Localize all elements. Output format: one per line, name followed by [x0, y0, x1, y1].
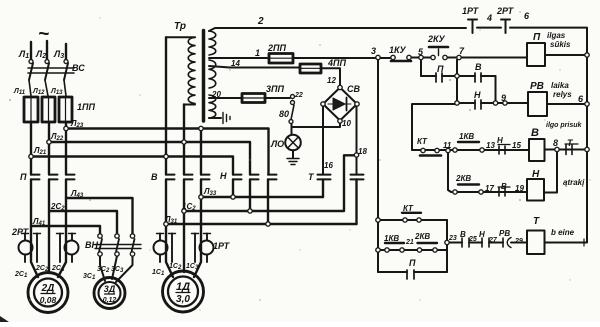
svg-text:П: П	[409, 258, 416, 268]
svg-text:Т: Т	[533, 216, 540, 227]
svg-text:8: 8	[553, 138, 558, 148]
svg-text:29: 29	[514, 238, 523, 245]
svg-text:Л13: Л13	[50, 88, 63, 96]
svg-text:4: 4	[486, 13, 492, 23]
svg-text:П: П	[437, 64, 444, 74]
svg-text:3: 3	[371, 46, 376, 56]
svg-text:0,08: 0,08	[40, 295, 57, 305]
svg-text:КТ: КТ	[403, 204, 414, 213]
svg-text:9: 9	[501, 93, 506, 103]
svg-text:Н: Н	[479, 230, 485, 239]
svg-text:2Д: 2Д	[41, 283, 55, 294]
svg-text:13: 13	[486, 141, 495, 150]
svg-text:0,12: 0,12	[103, 297, 117, 304]
svg-text:В: В	[501, 182, 507, 191]
svg-text:РВ: РВ	[499, 229, 510, 238]
svg-text:Н: Н	[220, 171, 227, 181]
svg-text:14: 14	[231, 59, 240, 68]
svg-text:ilgo prisuk: ilgo prisuk	[546, 122, 583, 129]
svg-text:23: 23	[448, 235, 457, 242]
svg-text:Л11: Л11	[13, 88, 26, 96]
svg-text:laika: laika	[551, 81, 569, 90]
svg-text:27: 27	[488, 237, 498, 244]
svg-text:Н: Н	[497, 136, 503, 145]
svg-text:12: 12	[327, 76, 336, 85]
svg-text:1РТ: 1РТ	[462, 6, 480, 16]
svg-text:b eine: b eine	[551, 228, 575, 237]
svg-text:ВС: ВС	[72, 63, 85, 73]
svg-text:2ПП: 2ПП	[267, 43, 286, 53]
svg-text:2: 2	[257, 16, 264, 27]
svg-text:10: 10	[342, 119, 351, 128]
svg-text:Л12: Л12	[32, 88, 45, 96]
svg-text:1: 1	[255, 48, 260, 58]
svg-text:3С3: 3С3	[111, 266, 124, 274]
svg-text:4ПП: 4ПП	[327, 58, 346, 68]
svg-text:1Д: 1Д	[176, 281, 190, 293]
svg-text:2КУ: 2КУ	[427, 34, 446, 44]
svg-text:Н: Н	[474, 90, 481, 100]
svg-text:1ПП: 1ПП	[77, 102, 95, 112]
svg-text:1РТ: 1РТ	[213, 241, 231, 251]
svg-text:2КВ: 2КВ	[455, 174, 471, 183]
svg-text:1КУ: 1КУ	[389, 45, 407, 55]
svg-text:21: 21	[405, 239, 414, 246]
svg-text:17: 17	[485, 184, 494, 193]
svg-text:РВ: РВ	[530, 81, 544, 92]
svg-text:15: 15	[512, 141, 521, 150]
svg-text:ВН: ВН	[85, 240, 98, 250]
svg-text:Тр: Тр	[174, 21, 186, 32]
svg-text:relys: relys	[553, 90, 572, 99]
svg-text:2РТ: 2РТ	[11, 227, 30, 237]
svg-text:3ПП: 3ПП	[266, 84, 284, 94]
svg-text:sūkis: sūkis	[550, 40, 571, 49]
svg-text:22: 22	[294, 92, 303, 99]
svg-text:П: П	[20, 172, 27, 182]
svg-text:1С1: 1С1	[152, 269, 165, 277]
svg-text:1КВ: 1КВ	[384, 234, 399, 243]
svg-text:25: 25	[468, 236, 477, 243]
svg-text:В: В	[475, 62, 482, 72]
svg-text:80: 80	[279, 109, 289, 119]
svg-text:В: В	[531, 127, 539, 139]
svg-text:2С3: 2С3	[51, 265, 65, 273]
svg-text:16: 16	[324, 161, 333, 170]
svg-text:2С2: 2С2	[35, 265, 49, 273]
svg-text:В: В	[460, 230, 466, 239]
svg-text:20: 20	[211, 90, 221, 99]
svg-text:СВ: СВ	[347, 84, 360, 94]
svg-text:2С1: 2С1	[14, 271, 28, 279]
svg-text:19: 19	[515, 184, 524, 193]
svg-text:1С2: 1С2	[169, 263, 182, 271]
svg-text:П: П	[533, 32, 541, 43]
svg-text:Н: Н	[532, 169, 540, 180]
svg-text:3,0: 3,0	[176, 294, 190, 305]
svg-text:2РТ: 2РТ	[496, 6, 515, 16]
svg-text:18: 18	[358, 147, 367, 156]
svg-text:КТ: КТ	[417, 137, 428, 146]
svg-text:ilgas: ilgas	[547, 31, 566, 40]
svg-text:11: 11	[443, 141, 452, 150]
svg-text:1С3: 1С3	[186, 263, 199, 271]
svg-text:3С1: 3С1	[83, 273, 96, 281]
svg-text:~: ~	[38, 24, 49, 45]
svg-text:3С2: 3С2	[97, 266, 110, 274]
svg-text:В: В	[151, 172, 158, 182]
svg-text:1КВ: 1КВ	[459, 132, 474, 141]
svg-text:ątrakį: ątrakį	[563, 178, 585, 187]
svg-text:2КВ: 2КВ	[414, 232, 430, 241]
svg-text:ЛО: ЛО	[270, 139, 284, 149]
svg-text:3Д: 3Д	[104, 284, 116, 294]
